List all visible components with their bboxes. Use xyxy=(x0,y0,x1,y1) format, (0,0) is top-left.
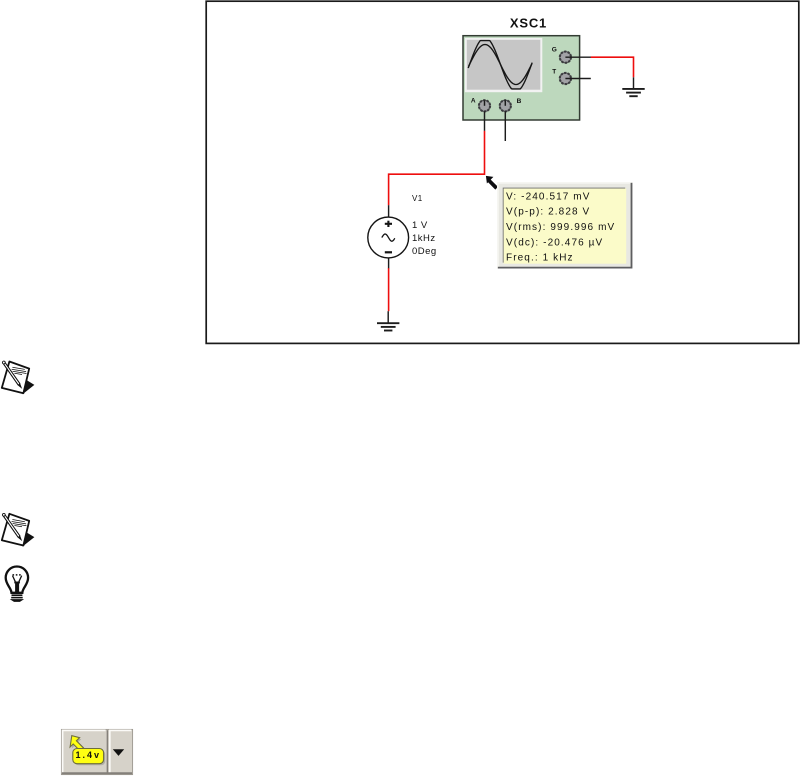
svg-text:G: G xyxy=(552,47,557,54)
svg-text:1.4v: 1.4v xyxy=(76,750,102,760)
svg-text:B: B xyxy=(517,98,522,105)
svg-text:V1: V1 xyxy=(412,194,423,203)
svg-text:V(rms): 999.996 mV: V(rms): 999.996 mV xyxy=(506,222,615,233)
svg-text:1 V: 1 V xyxy=(412,220,428,231)
svg-text:V: -240.517 mV: V: -240.517 mV xyxy=(506,191,591,202)
svg-text:1kHz: 1kHz xyxy=(412,233,436,244)
svg-text:V(p-p): 2.828 V: V(p-p): 2.828 V xyxy=(506,207,590,218)
svg-text:Freq.: 1 kHz: Freq.: 1 kHz xyxy=(506,252,574,263)
svg-text:V(dc): -20.476 µV: V(dc): -20.476 µV xyxy=(506,238,603,249)
svg-text:XSC1: XSC1 xyxy=(510,15,547,30)
svg-text:0Deg: 0Deg xyxy=(412,246,437,257)
svg-text:A: A xyxy=(471,98,476,105)
svg-text:T: T xyxy=(552,68,556,75)
